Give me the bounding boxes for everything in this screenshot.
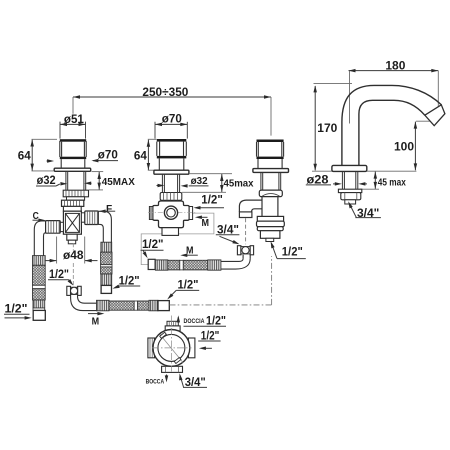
dimension 180 (spout) <box>349 71 439 124</box>
label M (lower hose) <box>88 313 101 315</box>
dimension 250÷350 top <box>73 97 271 136</box>
right valve barrel connector <box>257 216 285 241</box>
left handle <box>60 139 86 168</box>
right flange <box>253 169 289 173</box>
dimension 170 (spout) <box>312 84 352 172</box>
left shank tube <box>66 171 86 190</box>
svg-text:1/2": 1/2" <box>142 237 164 251</box>
3/4 nut (exploded below right valve) <box>237 246 253 255</box>
spout shank <box>342 171 357 189</box>
right valve elbow outlet <box>239 197 278 218</box>
dimension ø70 (middle handle) <box>155 122 187 139</box>
dimension 45 max (spout) <box>360 172 380 190</box>
svg-text:45max: 45max <box>224 177 254 189</box>
routing dashed right valve elbow to nut <box>245 218 247 244</box>
dimension 45MAX (left) <box>89 172 103 190</box>
right locknut <box>259 190 282 197</box>
label DOCCIA 1/2" <box>177 317 179 323</box>
middle diverter valve body <box>148 201 196 235</box>
body circles <box>153 330 190 367</box>
svg-text:ø70: ø70 <box>162 112 182 126</box>
dimension ø51 (left handle) <box>60 122 86 139</box>
left washer <box>67 197 85 200</box>
top port <box>167 321 178 326</box>
svg-text:ø70: ø70 <box>98 148 118 162</box>
label ø32 (left) <box>36 183 92 186</box>
label ø70 (left) <box>47 160 119 162</box>
notches <box>160 332 167 338</box>
svg-text:1/2": 1/2" <box>282 244 303 258</box>
right handle <box>257 140 284 169</box>
left handle flange ø70 <box>54 168 90 171</box>
left valve bottom outlet <box>67 234 77 244</box>
svg-text:DOCCIA: DOCCIA <box>184 318 205 325</box>
lower horizontal hose <box>97 300 170 311</box>
svg-text:1/2": 1/2" <box>201 192 223 206</box>
routing line lower hose to right valve <box>170 256 272 305</box>
svg-text:64: 64 <box>134 149 147 163</box>
svg-text:ø51: ø51 <box>64 112 84 126</box>
dimension ø48 <box>45 237 98 264</box>
right shank <box>261 172 281 190</box>
svg-text:45MAX: 45MAX <box>102 176 135 188</box>
svg-text:BOCCA: BOCCA <box>146 379 165 386</box>
right port <box>188 338 195 358</box>
svg-text:1/2": 1/2" <box>5 302 28 316</box>
dimension 100 (spout) <box>367 122 417 172</box>
centerlines <box>170 316 172 372</box>
dimension 64 (middle) <box>148 139 157 170</box>
routing line middle valve to upper hose <box>141 213 214 265</box>
label 1/2" (right valve barrel) <box>272 244 278 259</box>
svg-text:1/2": 1/2" <box>178 278 199 292</box>
lower-left 3/4 nut <box>67 286 81 295</box>
svg-text:1/2": 1/2" <box>206 314 226 328</box>
label M (middle valve) <box>201 216 208 218</box>
spout body <box>342 85 441 165</box>
F elbow tube <box>98 211 111 242</box>
elbow from nut to lower hose <box>71 295 98 310</box>
left valve body <box>62 200 84 234</box>
svg-text:45 max: 45 max <box>378 176 406 188</box>
C elbow tube <box>34 221 45 256</box>
middle locknut <box>160 193 182 201</box>
svg-text:1/2": 1/2" <box>201 329 220 343</box>
middle shank <box>162 174 179 192</box>
middle flange <box>154 170 189 174</box>
svg-text:M: M <box>92 316 100 328</box>
left locknut <box>63 190 88 197</box>
C hose (vertical braided) <box>33 256 46 321</box>
bottom port <box>162 366 183 372</box>
left valve right collar <box>81 213 84 222</box>
spout nozzle <box>425 105 445 126</box>
svg-text:ø32: ø32 <box>37 173 56 187</box>
dimension 64 (left) <box>32 139 58 171</box>
svg-text:250÷350: 250÷350 <box>142 85 188 99</box>
F hose (vertical braided) <box>101 242 112 293</box>
left valve nut C <box>46 221 61 234</box>
left valve left collar <box>60 222 63 231</box>
middle handle <box>157 139 187 170</box>
left port <box>148 338 155 358</box>
svg-text:M: M <box>202 217 210 229</box>
svg-text:170: 170 <box>317 121 337 135</box>
upper horizontal hose <box>148 259 221 270</box>
svg-text:100: 100 <box>394 140 414 154</box>
bottom diverter <box>148 316 195 373</box>
dimension 45max (middle) <box>182 174 232 193</box>
spout locknut <box>338 189 361 204</box>
svg-text:1/2": 1/2" <box>49 267 69 281</box>
svg-text:3/4": 3/4" <box>217 222 239 236</box>
svg-text:3/4": 3/4" <box>185 375 206 389</box>
left valve nut F <box>85 211 99 225</box>
upper hose elbow to 3/4 nut <box>221 255 250 269</box>
svg-text:180: 180 <box>385 58 405 72</box>
svg-text:64: 64 <box>18 148 31 162</box>
spout flange <box>332 165 367 171</box>
